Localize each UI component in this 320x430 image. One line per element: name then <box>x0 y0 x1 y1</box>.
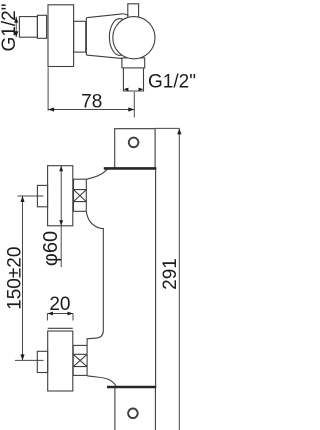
svg-text:G1/2": G1/2" <box>0 4 20 52</box>
svg-text:G1/2": G1/2" <box>148 72 196 93</box>
svg-text:78: 78 <box>81 91 102 112</box>
svg-text:150±20: 150±20 <box>5 247 26 310</box>
svg-text:φ60: φ60 <box>40 231 62 266</box>
svg-text:20: 20 <box>49 294 70 315</box>
svg-text:291: 291 <box>160 258 181 290</box>
